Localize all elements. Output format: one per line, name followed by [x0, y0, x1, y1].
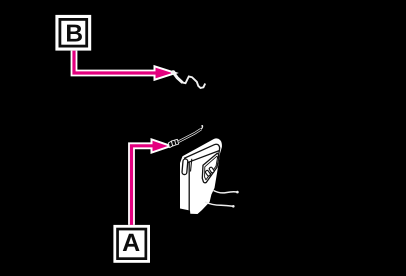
DC plug (target of A) [168, 139, 178, 147]
lower wire [205, 202, 235, 208]
plug cable with end hook [179, 126, 203, 142]
connector contacts in recess [205, 167, 215, 177]
latch capsule [182, 159, 188, 175]
leader arrow B [74, 51, 172, 79]
upper wire [214, 191, 239, 194]
device (cradle/charger) silhouette [180, 138, 222, 214]
top bevel lower edge [186, 151, 220, 164]
svg-text:A: A [122, 229, 140, 257]
cord squiggle (target of B) [171, 70, 205, 88]
callout box A [113, 225, 150, 263]
left face front edge [188, 162, 190, 212]
recess panel on front face [202, 153, 219, 183]
slot line [191, 159, 192, 172]
callout box B [55, 15, 91, 51]
leader arrow A [132, 141, 168, 225]
top slab front edge [184, 144, 220, 158]
svg-text:B: B [65, 21, 83, 48]
